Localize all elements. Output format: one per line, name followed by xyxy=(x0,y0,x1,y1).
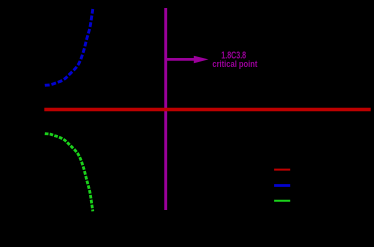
legend sample line: blue xyxy=(274,184,290,187)
dark red horizontal line (y = 0 axis series) xyxy=(44,108,370,111)
blue dashed curve (diverging upper branch) xyxy=(45,9,93,85)
green dashed curve (diverging lower branch) xyxy=(45,134,93,212)
svg-text:critical point: critical point xyxy=(212,59,257,69)
purple vertical line (critical point marker) xyxy=(164,8,167,210)
purple annotation arrow tail xyxy=(167,58,197,61)
legend sample line: red xyxy=(274,169,290,171)
purple annotation arrow head xyxy=(194,56,209,64)
legend sample line: green xyxy=(274,200,290,202)
